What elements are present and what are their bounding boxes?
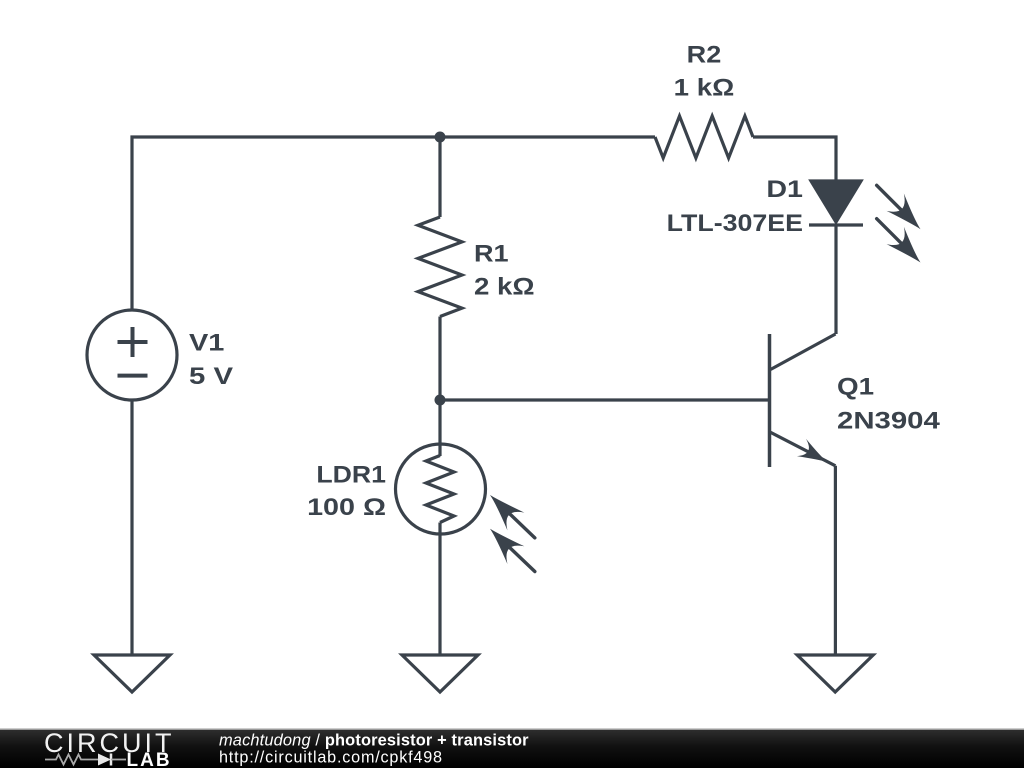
CircuitLab logo resistor-diode glyph: [45, 754, 126, 766]
svg-text:machtudong / photoresistor + t: machtudong / photoresistor + transistor: [219, 731, 529, 749]
svg-text:2 kΩ: 2 kΩ: [474, 274, 535, 301]
wire: Q1 emitter to ground: [834, 466, 837, 655]
wire: base wire node B to Q1 base: [440, 398, 768, 401]
transistor Q1: [770, 334, 836, 470]
wire: node B to LDR1: [438, 400, 441, 456]
LED D1: [809, 181, 863, 225]
wire: top rail right segment (node A to R2): [440, 135, 655, 138]
svg-text:V1: V1: [189, 330, 224, 357]
svg-text:5 V: 5 V: [189, 363, 233, 390]
svg-text:LDR1: LDR1: [316, 461, 386, 488]
LDR1 light arrow 2: [481, 521, 543, 582]
wire: V1 to ground: [130, 400, 133, 655]
svg-text:D1: D1: [766, 176, 803, 203]
wire: D1 cathode to Q1 collector: [834, 225, 837, 334]
resistor R1: [418, 217, 462, 317]
ground (Q1 emitter): [797, 655, 873, 692]
svg-text:LTL-307EE: LTL-307EE: [667, 210, 803, 237]
resistor R2: [655, 116, 753, 158]
wire: LDR1 to ground: [438, 523, 441, 656]
voltage source V1: [87, 310, 177, 400]
svg-text:LAB: LAB: [127, 750, 172, 768]
ground (V1): [94, 655, 170, 692]
CircuitLab footer bar: [0, 729, 1024, 768]
svg-text:R2: R2: [687, 42, 722, 69]
wire: R2 to D1 anode: [753, 137, 836, 182]
ground (LDR1): [402, 655, 478, 692]
wire: top rail left segment (V1 to node A): [132, 137, 440, 310]
node B junction dot: [435, 395, 446, 406]
D1 light emission arrow 2: [869, 209, 930, 270]
svg-text:http://circuitlab.com/cpkf498: http://circuitlab.com/cpkf498: [219, 749, 443, 767]
wire: node A to R1: [438, 137, 441, 217]
node A junction dot: [435, 132, 446, 143]
svg-text:100 Ω: 100 Ω: [307, 494, 386, 521]
svg-text:Q1: Q1: [837, 373, 874, 400]
LDR1 light arrow 1: [481, 487, 543, 548]
wire: R1 to node B: [438, 317, 441, 401]
svg-text:1 kΩ: 1 kΩ: [674, 75, 735, 102]
photoresistor LDR1: [396, 444, 486, 534]
D1 light emission arrow 1: [869, 176, 930, 237]
svg-text:2N3904: 2N3904: [837, 407, 941, 434]
svg-text:R1: R1: [474, 241, 509, 268]
